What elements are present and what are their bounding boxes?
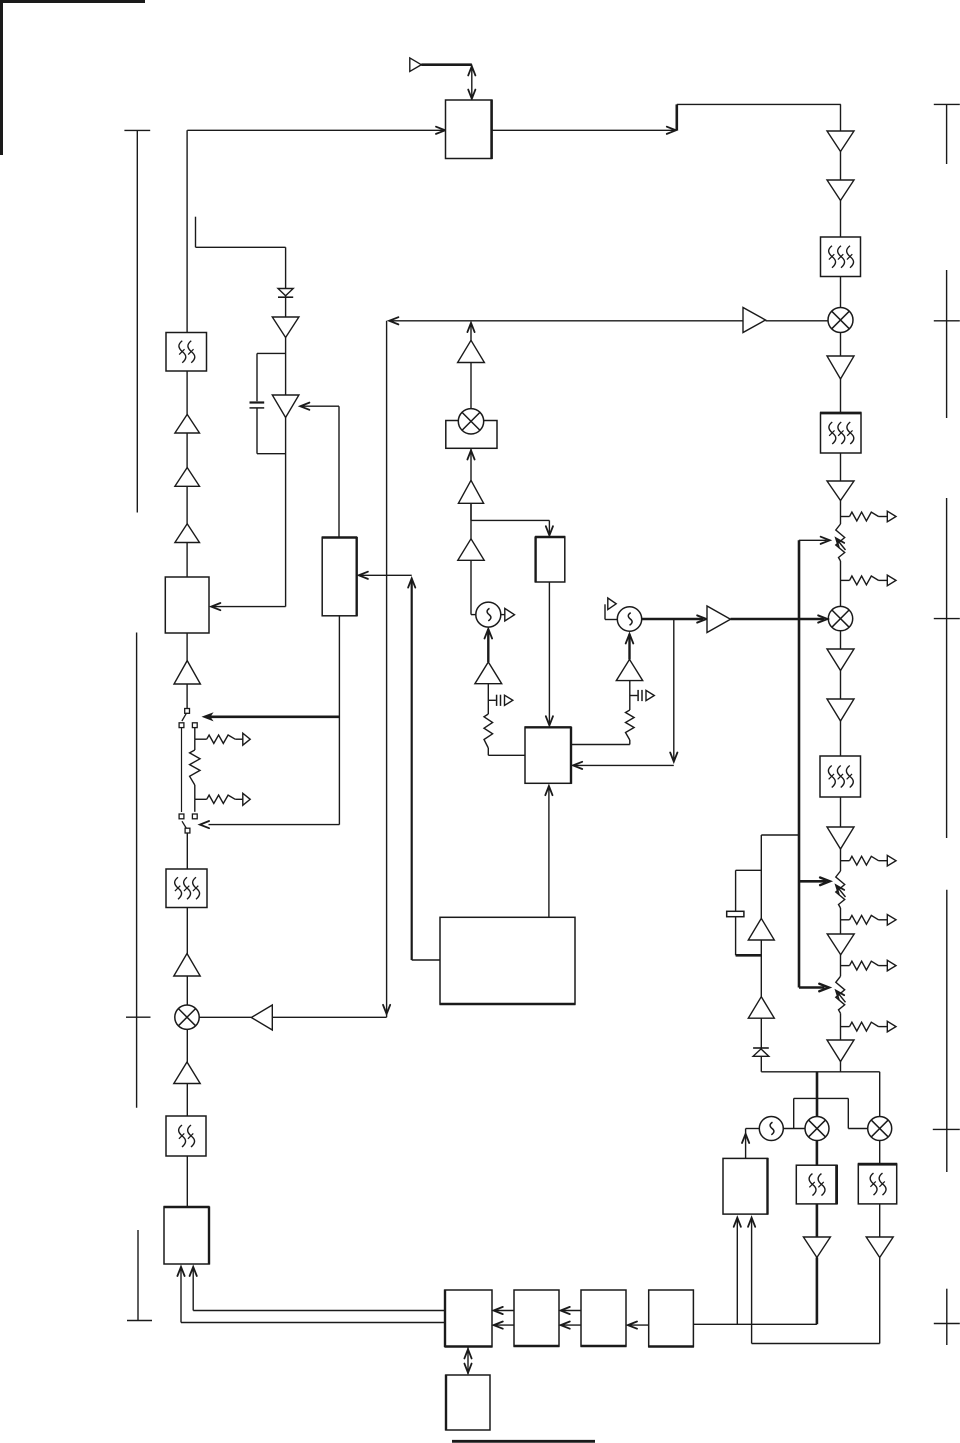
filter FL3: [820, 756, 861, 797]
right margin bracket 2: [946, 270, 948, 418]
variable attenuator VA1: [836, 524, 845, 561]
AGC control arrow to VA1: [799, 539, 827, 541]
figure underline: [452, 1440, 595, 1443]
amplifier A26: [458, 539, 484, 561]
amplifier A17 (TX): [174, 661, 200, 684]
loop resistor R1: [484, 714, 493, 748]
wire LO feed down-left: [386, 321, 388, 1018]
left margin bracket 1: [124, 129, 150, 131]
wire from ALC box to attenuator: [338, 616, 340, 825]
amplifier A14 (TX): [174, 1062, 200, 1084]
filter FL2: [821, 413, 862, 453]
reference/control box U13: [440, 917, 575, 1004]
wire Q out: [752, 1343, 880, 1345]
filter FL6 (TX): [166, 1116, 206, 1156]
mixer MX5 (TX): [175, 1005, 199, 1029]
wire Q IF line: [879, 1141, 881, 1165]
loop amplifier A27: [487, 629, 489, 662]
page frame corner (top-left): [0, 0, 145, 3]
wire antenna to duplexer (bidirectional): [471, 65, 473, 99]
wire I out to demod box: [693, 1323, 817, 1325]
baseband box U4: [581, 1290, 626, 1346]
wire AGC amp to control line: [761, 834, 799, 836]
demod LO wiring: [783, 1128, 805, 1130]
amplifier A24: [458, 340, 485, 362]
variable attenuator VA3: [836, 976, 845, 1013]
amplifier A3 (IF): [827, 356, 854, 379]
AGC detector chain wire: [760, 835, 762, 1072]
wire ALC box to VCO1 control: [338, 406, 340, 537]
amplifier A20 (TX): [175, 414, 200, 433]
mixer MX4 (Q): [868, 1117, 892, 1141]
wire into mixer module: [467, 450, 474, 459]
wire duplexer to RX chain: [492, 129, 675, 131]
oscillator OSC1 (VCO): [476, 602, 501, 627]
TX LO amplifier A15: [272, 1016, 386, 1018]
filter FL7 (TX): [166, 869, 207, 908]
wire TX into duplexer: [187, 129, 443, 131]
LO bus line: [389, 320, 743, 322]
amplifier A12 (I): [803, 1237, 830, 1258]
wire U3 to U4: [630, 1324, 649, 1326]
test tap T5: [841, 965, 850, 967]
amplifier A7: [827, 827, 854, 849]
filter FL1: [821, 237, 861, 277]
diode D1: [278, 289, 293, 296]
amplifier A2 (RX): [827, 180, 854, 201]
LO amplifier A29: [707, 606, 731, 633]
VCO1 feedback capacitor C2: [257, 352, 286, 354]
AFC box U2: [723, 1158, 768, 1214]
wire I IF line: [816, 1141, 819, 1166]
wire Q-branch to mixer MX4: [879, 1072, 881, 1117]
VCO1 tuning control arrow: [302, 405, 339, 407]
right margin bracket 5: [946, 1289, 948, 1345]
VCO1 input stub: [195, 217, 197, 248]
wire phase detector right input R2: [571, 744, 630, 746]
wire U13 to ALC box: [412, 959, 440, 961]
right margin bracket 3: [946, 498, 948, 838]
amplifier A4: [827, 481, 854, 501]
control box U7: [446, 1375, 490, 1430]
capacitor port tap C3: [488, 699, 496, 701]
phase detector box U12: [525, 727, 571, 783]
amplifier A5: [827, 649, 854, 671]
AGC amplifier A11: [748, 918, 774, 940]
LO amplifier A23: [743, 308, 766, 333]
test tap T6: [841, 1026, 850, 1028]
VCO1 tuned stage A22: [272, 395, 299, 418]
OSC2 reference flag: [604, 604, 606, 619]
divider box U11: [536, 537, 565, 582]
AGC amplifier A10: [748, 997, 774, 1019]
amplifier A25: [458, 480, 483, 503]
wire demod bus: [761, 1071, 879, 1073]
baseband box U5: [514, 1290, 559, 1346]
wire U6 to control box (bidirectional): [467, 1348, 469, 1375]
variable attenuator VA2: [836, 871, 845, 908]
step attenuator switch (top pole): [182, 713, 187, 721]
wire RX main line: [840, 104, 842, 524]
right margin bracket 1: [934, 103, 960, 105]
AGC smoothing capacitor C1 loop: [736, 869, 762, 871]
AGC control arrow to VA2: [799, 880, 826, 883]
amplifier A16 (TX): [174, 954, 200, 977]
loop amplifier A28: [616, 659, 642, 680]
amplifier A8: [827, 934, 854, 955]
ALC box U10: [322, 538, 357, 616]
carrier oscillator OSC3: [759, 1117, 783, 1141]
amplifier A1 (RX): [827, 131, 854, 152]
attenuator control arrow (top): [210, 715, 340, 718]
wire VCO1 into U9: [213, 606, 286, 608]
detector diode D2: [753, 1047, 769, 1049]
amplifier A13 (Q): [866, 1237, 893, 1258]
mixer module MX6: [446, 421, 497, 449]
buffer amplifier A21: [272, 317, 299, 338]
wires U5 to U6: [495, 1310, 514, 1312]
test tap T4: [841, 919, 850, 921]
attenuator pad resistors: [194, 728, 196, 740]
wire VCO1 chain: [285, 247, 287, 606]
test tap T1: [841, 516, 850, 518]
wires U6 to TX modulator box: [193, 1310, 445, 1312]
oscillator OSC2: [617, 607, 641, 631]
loop filter wire: [487, 684, 489, 714]
synthesizer main line: [470, 324, 472, 520]
wire divider to phase detector: [548, 582, 550, 723]
attenuator through path: [181, 728, 183, 812]
amplifier A9: [827, 1040, 854, 1062]
wire I-sample into AFC box: [736, 1218, 738, 1324]
OSC1 output port: [501, 614, 505, 616]
capacitor port tap C4: [630, 695, 638, 697]
wire I-branch to mixer MX3: [816, 1072, 819, 1117]
attenuator control arrow (bottom): [209, 824, 340, 826]
AGC control line: [798, 540, 801, 987]
test tap T3: [841, 860, 850, 862]
wire TX chain: [186, 130, 188, 708]
wire phase detector to reference box: [548, 786, 550, 917]
wire branch to divider: [471, 519, 549, 521]
TX IF box U9: [165, 577, 209, 633]
mixer MX1: [828, 308, 853, 333]
wire to LO bus with arrow: [467, 323, 474, 332]
filter FL8 (TX): [166, 333, 207, 372]
OSC2 output wire: [642, 618, 704, 621]
mixer MX3 (I): [805, 1117, 829, 1141]
antenna port: [410, 58, 422, 71]
wire synth corner to VCO2 (OSC1): [470, 560, 472, 614]
wires U4 to U5: [562, 1310, 581, 1312]
TX modulator box U8: [164, 1207, 209, 1264]
right margin bracket 4: [946, 890, 948, 1172]
left margin bracket 2: [136, 633, 138, 1108]
amplifier A19 (TX): [175, 468, 200, 487]
duplexer box U1: [446, 100, 492, 159]
baseband box U6: [445, 1290, 492, 1347]
step attenuator switch (bottom pole): [182, 821, 187, 829]
wire Q-sample into AFC box: [751, 1218, 753, 1344]
mixer MX2: [828, 606, 852, 630]
wire OSC2 branch to phase detector: [673, 619, 675, 759]
filter FL5 (Q): [858, 1164, 896, 1204]
test tap T2: [841, 579, 850, 581]
left margin bracket 3: [137, 1230, 139, 1321]
baseband box U3: [649, 1290, 694, 1347]
filter FL4 (I): [796, 1165, 836, 1204]
amplifier A6: [827, 699, 854, 721]
wire AFC to OSC3: [746, 1128, 760, 1130]
amplifier A18 (TX): [175, 524, 200, 543]
